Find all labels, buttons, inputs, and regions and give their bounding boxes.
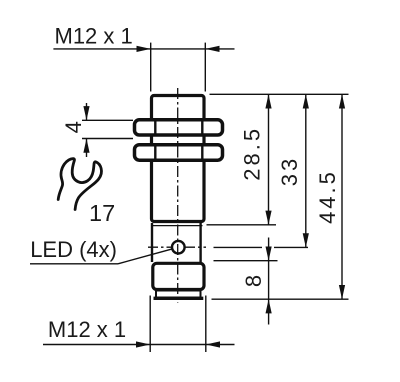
svg-text:4: 4 bbox=[61, 121, 86, 133]
svg-text:M12 x 1: M12 x 1 bbox=[55, 24, 133, 49]
svg-text:M12 x 1: M12 x 1 bbox=[48, 317, 126, 342]
svg-text:28.5: 28.5 bbox=[240, 126, 265, 181]
svg-text:33: 33 bbox=[277, 156, 302, 186]
svg-text:17: 17 bbox=[89, 200, 115, 226]
svg-text:LED (4x): LED (4x) bbox=[30, 237, 117, 262]
svg-text:44.5: 44.5 bbox=[315, 169, 340, 224]
svg-text:8: 8 bbox=[241, 275, 266, 287]
